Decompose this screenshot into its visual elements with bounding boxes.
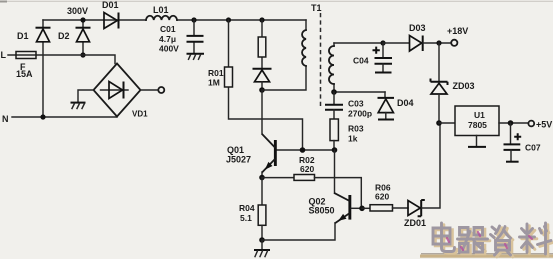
svg-text:R03: R03 bbox=[348, 124, 364, 134]
svg-text:T1: T1 bbox=[311, 3, 322, 13]
ground at C04 bbox=[375, 72, 392, 74]
svg-text:D04: D04 bbox=[397, 98, 414, 108]
junction dot C07 top bbox=[508, 120, 514, 126]
svg-text:15A: 15A bbox=[16, 69, 33, 79]
ground at VD1 bbox=[71, 103, 86, 109]
svg-text:400V: 400V bbox=[159, 44, 179, 54]
capacitor C07 bbox=[504, 123, 541, 161]
diode D01 bbox=[102, 0, 119, 29]
node +18V terminal bbox=[447, 26, 468, 46]
svg-text:L: L bbox=[1, 50, 7, 60]
svg-text:C07: C07 bbox=[525, 143, 541, 153]
diode D1 bbox=[17, 20, 51, 117]
transformer T1 secondary bbox=[329, 43, 334, 92]
snubber resistor bbox=[258, 20, 266, 68]
svg-text:C03: C03 bbox=[348, 99, 364, 109]
junction dot D2 top bbox=[80, 17, 85, 22]
wire to U1 bbox=[439, 122, 455, 124]
svg-text:C01: C01 bbox=[160, 24, 176, 34]
diode D04 bbox=[378, 92, 414, 118]
watermark underline bbox=[420, 254, 553, 258]
capacitor C01 bbox=[159, 20, 204, 54]
snubber diode bbox=[253, 69, 272, 90]
ground at U1 bbox=[468, 136, 486, 147]
svg-text:1M: 1M bbox=[208, 78, 220, 88]
wire U1 output bbox=[499, 122, 528, 124]
junction dot D2 bottom bbox=[80, 52, 85, 57]
node output terminal circle bbox=[158, 87, 164, 93]
ground at C07 bbox=[506, 161, 519, 163]
junction dot collector node bbox=[259, 87, 265, 93]
junction dot Q02 base bbox=[359, 206, 365, 212]
svg-text:N: N bbox=[2, 114, 9, 124]
svg-text:1k: 1k bbox=[348, 134, 358, 144]
svg-text:ZD01: ZD01 bbox=[404, 218, 426, 228]
svg-text:D03: D03 bbox=[409, 23, 426, 33]
svg-text:300V: 300V bbox=[67, 6, 88, 16]
node T1 label bbox=[311, 3, 322, 13]
svg-text:R01: R01 bbox=[208, 68, 224, 78]
svg-text:2700p: 2700p bbox=[348, 109, 372, 119]
resistor R04 bbox=[239, 178, 266, 241]
node L terminal label bbox=[1, 50, 7, 60]
transformer T1 primary bbox=[302, 20, 306, 66]
svg-text:Q01: Q01 bbox=[227, 145, 244, 155]
scan border top bbox=[0, 1, 553, 3]
wire VD1 left to ground bbox=[78, 90, 94, 102]
wire 300V rail bbox=[43, 19, 306, 21]
junction dot secondary bottom bbox=[331, 89, 337, 95]
resistor R01 bbox=[208, 20, 303, 150]
svg-text:ZD03: ZD03 bbox=[453, 81, 475, 91]
wire feedback node bbox=[334, 91, 385, 93]
resistor R03 bbox=[330, 119, 364, 150]
svg-text:D2: D2 bbox=[58, 31, 70, 41]
bridge rectifier VD1 bbox=[94, 64, 149, 119]
wire VD1 output bbox=[141, 89, 159, 91]
svg-text:4.7μ: 4.7μ bbox=[159, 34, 176, 44]
junction dot C04 top bbox=[380, 40, 385, 45]
fuse F 15A bbox=[16, 52, 36, 80]
svg-text:U1: U1 bbox=[474, 110, 485, 120]
wire collector to primary bottom bbox=[262, 66, 306, 90]
junction dot base-R01 bbox=[300, 147, 306, 153]
junction dot +18V node bbox=[436, 40, 441, 45]
svg-text:S8050: S8050 bbox=[309, 206, 335, 216]
wire L line bbox=[8, 55, 115, 64]
svg-text:R04: R04 bbox=[239, 203, 255, 213]
junction dot C01 top bbox=[191, 17, 196, 22]
junction dot U1 input bbox=[436, 120, 442, 126]
junction dot R01 top bbox=[226, 17, 231, 22]
svg-text:J5027: J5027 bbox=[226, 155, 251, 165]
wire collector down bbox=[261, 90, 263, 134]
capacitor C04 bbox=[353, 43, 392, 72]
junction dot snubber top bbox=[259, 17, 264, 22]
transistor Q02 bbox=[262, 150, 362, 240]
junction dot R04 bottom bbox=[259, 237, 265, 243]
ground at D04 bbox=[378, 119, 394, 121]
transformer T1 core bbox=[320, 13, 322, 107]
diode D03 bbox=[383, 23, 451, 51]
diode D2 bbox=[58, 20, 91, 55]
zener ZD03 bbox=[431, 43, 475, 123]
node 300V label bbox=[67, 6, 88, 16]
watermark text 电器资料 bbox=[433, 223, 553, 257]
ground at R04 bbox=[254, 240, 270, 257]
resistor R06 bbox=[362, 183, 408, 212]
junction dot D1-N bbox=[40, 114, 45, 119]
svg-text:7805: 7805 bbox=[468, 120, 487, 130]
wire secondary top bbox=[334, 42, 383, 44]
wire N line bbox=[12, 116, 117, 118]
transistor Q01 bbox=[226, 135, 277, 178]
resistor R02 bbox=[262, 155, 361, 208]
junction dot base-R03 bbox=[332, 147, 338, 153]
svg-text:D01: D01 bbox=[102, 0, 119, 10]
svg-text:+5V: +5V bbox=[536, 120, 552, 130]
svg-text:C04: C04 bbox=[353, 55, 369, 65]
node +5V terminal bbox=[528, 120, 552, 130]
node N terminal label bbox=[2, 114, 9, 124]
svg-text:620: 620 bbox=[375, 192, 389, 202]
wire Q01 base line bbox=[277, 149, 335, 151]
inductor L01 bbox=[146, 5, 177, 20]
junction dot Q01 emitter bbox=[259, 175, 265, 181]
svg-text:620: 620 bbox=[300, 164, 314, 174]
svg-text:L01: L01 bbox=[153, 5, 169, 15]
svg-text:VD1: VD1 bbox=[132, 110, 148, 119]
svg-text:5.1: 5.1 bbox=[240, 213, 252, 223]
zener ZD01 bbox=[404, 123, 440, 228]
regulator U1 7805 bbox=[455, 106, 499, 136]
svg-text:D1: D1 bbox=[17, 31, 29, 41]
ground at C01 bbox=[187, 54, 205, 60]
capacitor C03 bbox=[325, 92, 372, 119]
svg-text:+18V: +18V bbox=[447, 26, 468, 36]
